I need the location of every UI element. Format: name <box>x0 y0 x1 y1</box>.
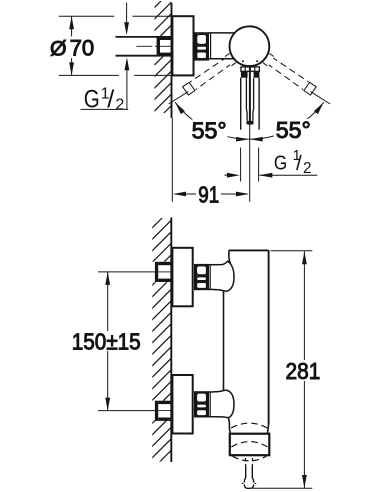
150 plus-minus 15 dimension <box>107 272 109 411</box>
dashed joint arc above collar <box>231 423 267 428</box>
55 degree dimension arc right <box>249 102 323 139</box>
dashed arc inside collar <box>231 442 267 447</box>
mixer body (bottom view) <box>229 249 269 251</box>
svg-text:/: / <box>296 152 302 175</box>
upper threaded connection in wall (dark) <box>155 262 171 282</box>
G 1/2 label (upper) <box>84 85 125 113</box>
svg-text:/: / <box>107 86 114 114</box>
lever collar <box>241 67 260 71</box>
dashed lever swung left 55 <box>183 53 236 95</box>
lever centerline extension down through 91 dimension <box>249 124 251 202</box>
union hex nut (top view) <box>195 33 208 60</box>
upper boss cylinder <box>208 264 223 266</box>
left lever axis extension line <box>169 92 189 104</box>
wall face line (bottom view) <box>170 218 172 463</box>
threaded connection in wall (dark) <box>157 36 172 57</box>
valve body circle (top view) <box>230 26 270 66</box>
diameter 70 dimension <box>59 15 115 17</box>
lower boss dome <box>213 390 234 418</box>
G 1/2 inlet thread leader (upper) <box>126 3 128 25</box>
right lever axis extension line <box>311 92 331 104</box>
lower escutcheon flange <box>172 375 192 434</box>
upper union hex nut <box>195 265 209 290</box>
lever inner shaft <box>245 78 248 121</box>
svg-text:Ø: Ø <box>50 37 67 61</box>
55 degree label right <box>274 119 310 140</box>
lever center stripe <box>249 67 251 124</box>
wall hatching (top view) <box>150 0 176 127</box>
G 1/2 outlet dimension (lever shaft) <box>240 148 242 182</box>
svg-text:G: G <box>274 152 287 175</box>
svg-text:91: 91 <box>198 181 219 207</box>
dashed arc below collar <box>232 456 266 461</box>
shower outlet collar <box>230 434 269 456</box>
hose connector stem <box>245 458 247 466</box>
55 degree label left <box>190 120 228 141</box>
wall hatching (bottom view) <box>148 205 175 474</box>
lower boss cylinder <box>208 391 223 393</box>
valve boss cylinder (top view) <box>208 32 235 34</box>
lower inlet centerline / 150 extension line <box>98 410 155 412</box>
55 degree dimension arc left <box>175 102 249 139</box>
escutcheon flange (top view) <box>172 16 193 75</box>
svg-text:2: 2 <box>115 97 124 114</box>
lever outer silhouette lines <box>240 78 242 130</box>
lever shaft end cap <box>246 121 253 125</box>
svg-text:55°: 55° <box>192 118 227 144</box>
upper boss dome <box>213 261 234 291</box>
diameter 70 label <box>48 37 95 59</box>
svg-text:55°: 55° <box>276 117 311 143</box>
inlet pipe stub behind wall <box>116 36 158 38</box>
upper inlet centerline / 150 extension line <box>98 271 155 273</box>
svg-text:G: G <box>84 86 100 114</box>
lower union hex nut <box>195 392 209 417</box>
svg-text:150±15: 150±15 <box>72 329 141 355</box>
svg-text:2: 2 <box>303 160 312 177</box>
G 1/2 label (outlet) <box>274 148 312 177</box>
inlet centerline (top view) <box>137 45 153 47</box>
dashed lever swung right 55 <box>263 53 316 95</box>
wall face line (top view) <box>171 3 173 118</box>
91 dimension <box>175 193 248 195</box>
screw dots on body <box>242 60 244 62</box>
lower threaded connection in wall (dark) <box>155 401 171 421</box>
281 dimension <box>271 250 313 252</box>
arc arrowheads <box>175 102 324 141</box>
svg-text:70: 70 <box>70 36 95 61</box>
upper escutcheon flange <box>172 248 192 306</box>
wall face extension line down to 91 dimension <box>171 118 173 202</box>
svg-text:281: 281 <box>286 358 321 384</box>
